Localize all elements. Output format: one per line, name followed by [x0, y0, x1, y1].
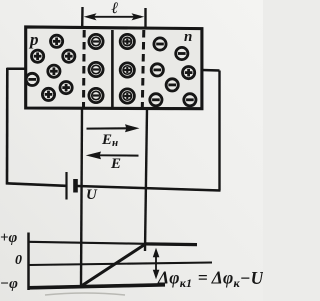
acceptor ion A2	[89, 62, 103, 76]
node left depletion boundary (vertical line, top segment)	[81, 7, 84, 28]
potential curve plateau (n-side potential)	[144, 242, 197, 246]
hole h5	[60, 82, 72, 94]
graph 0 level line	[29, 263, 213, 266]
svg-text:U: U	[86, 187, 98, 203]
electron e5	[150, 94, 162, 106]
wire left stub from p side	[7, 67, 25, 70]
hole h3	[63, 50, 75, 62]
battery U long plate	[65, 172, 67, 200]
wire left vertical down to battery	[6, 68, 9, 185]
donor ion column (circled plus, double ring)	[120, 34, 134, 103]
hole h1	[51, 35, 63, 47]
p-n junction middle line	[111, 30, 114, 108]
hole h6	[42, 88, 54, 100]
hole h2	[31, 50, 43, 62]
electron e2	[176, 47, 188, 59]
holes in p region (circled plus)	[26, 35, 75, 100]
svg-text:n: n	[184, 29, 192, 45]
acceptor ion column (circled minus, double ring)	[89, 34, 103, 102]
hole in n region (circled plus)	[183, 67, 195, 79]
hole h4	[48, 65, 60, 77]
node right depletion boundary (dashed inside crystal)	[142, 30, 144, 108]
donor ion D3	[120, 89, 134, 103]
node left depletion boundary (lower segment through circuit to graph)	[81, 109, 82, 288]
field arrow E (external) pointing left	[86, 152, 139, 160]
electrons in n region (circled minus)	[150, 38, 196, 106]
barrier arrowhead down	[153, 270, 160, 280]
crystal interior tint	[27, 28, 200, 107]
svg-text:0: 0	[15, 253, 22, 268]
wire right vertical up	[218, 71, 220, 191]
barrier arrowhead up	[153, 248, 160, 258]
wire right stub to n side	[202, 69, 220, 72]
field arrow E_n (internal) pointing right	[87, 124, 140, 132]
dimension arrowhead right	[132, 13, 145, 20]
electron e4	[166, 79, 178, 91]
barrier height double arrow shaft	[155, 251, 157, 276]
crystal box (p-n semiconductor body)	[26, 27, 202, 109]
node left depletion boundary (dashed inside crystal)	[82, 30, 86, 108]
node right depletion boundary (vertical line, top segment)	[144, 8, 146, 28]
graph -phi level line (thick, p-side potential)	[29, 285, 166, 288]
battery U short thick plate	[73, 179, 78, 193]
acceptor ion A1	[89, 34, 103, 48]
svg-text:+φ: +φ	[0, 230, 18, 246]
wire bottom battery to right	[78, 186, 221, 191]
node right depletion boundary (lower segment through circuit to graph)	[145, 109, 147, 251]
dimension arrowhead left	[84, 13, 97, 20]
svg-text:−φ: −φ	[0, 276, 18, 292]
potential curve diagonal through depletion layer	[82, 244, 146, 286]
donor ion D1	[120, 34, 134, 48]
electron e6	[184, 94, 196, 106]
graph phi axis (vertical)	[27, 233, 30, 291]
acceptor ion A3	[89, 88, 103, 102]
electron e3	[151, 64, 163, 76]
donor ion D2	[120, 63, 134, 77]
svg-text:E: E	[110, 156, 121, 172]
svg-text:Δφк1 = Δφк−U: Δφк1 = Δφк−U	[157, 268, 263, 291]
svg-text:p: p	[28, 30, 39, 49]
svg-text:ℓ: ℓ	[111, 0, 119, 17]
electron in p region (circled minus)	[26, 73, 38, 85]
electron e1	[154, 38, 166, 50]
scan smudge bottom	[45, 293, 125, 295]
wire bottom left to battery	[6, 183, 66, 186]
dimension arrow l (width of depletion layer)	[88, 16, 141, 18]
graph +phi level line	[29, 242, 146, 244]
